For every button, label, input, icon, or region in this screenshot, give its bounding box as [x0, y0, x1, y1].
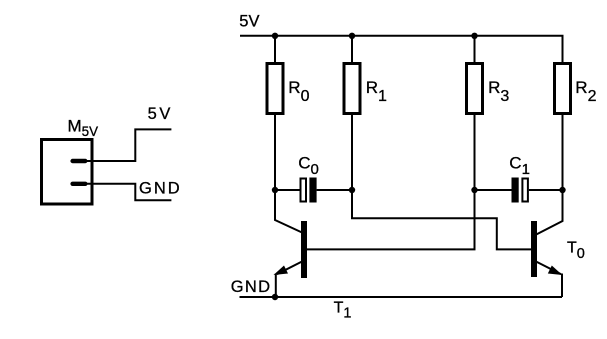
wire node C to C1	[475, 189, 513, 191]
resistor R1	[344, 64, 360, 114]
wire pin 2 to GND terminal	[80, 184, 171, 201]
T0 emitter arrow	[548, 266, 563, 276]
svg-text:5V: 5V	[239, 13, 259, 31]
svg-text:GND: GND	[139, 180, 182, 198]
pin 1 (5V) of connector M1	[73, 159, 86, 163]
svg-text:R0: R0	[288, 78, 309, 105]
T0 emitter	[536, 262, 561, 275]
transistor T1 base bar	[301, 221, 307, 278]
wire R0 to node A	[274, 115, 276, 190]
wire C1 to node D	[529, 189, 563, 191]
T1 emitter arrow	[274, 266, 289, 276]
junction rail/R1	[349, 33, 355, 39]
T1 emitter	[277, 262, 302, 275]
wire node B to T0 base	[352, 190, 531, 249]
svg-text:GND: GND	[231, 278, 272, 296]
svg-text:5V: 5V	[148, 105, 173, 123]
wire T1 base to node C	[307, 190, 475, 249]
wire R3 to node C	[474, 115, 476, 190]
wire rail to R0	[274, 36, 276, 63]
capacitor C1 negative plate	[522, 179, 528, 202]
capacitor C0 negative plate	[301, 179, 307, 202]
junction GND rail / T1 emitter	[272, 294, 278, 300]
svg-text:T0: T0	[567, 239, 585, 262]
svg-text:T1: T1	[334, 300, 352, 322]
svg-text:R3: R3	[488, 78, 509, 105]
svg-text:M5V: M5V	[68, 117, 99, 139]
connector M1 body	[42, 140, 93, 205]
wire T1 emitter to GND rail	[275, 274, 277, 298]
wire T0 emitter to GND rail	[561, 274, 563, 298]
capacitor C1 positive plate	[512, 178, 519, 203]
svg-text:R2: R2	[575, 78, 596, 105]
wire node A to T1 collector	[275, 190, 302, 233]
transistor T0 base bar	[531, 221, 537, 277]
junction node A (R0/C0/T1 collector)	[272, 187, 278, 193]
resistor R0	[267, 64, 283, 114]
capacitor C0 positive plate	[309, 178, 316, 203]
junction node D (C1/R2/T0 collector)	[559, 187, 565, 193]
junction rail/R0	[272, 33, 278, 39]
wire R2 to node D	[562, 115, 564, 190]
junction node B (C0/R1/T0 base wire)	[349, 187, 355, 193]
wire C0 to node B	[317, 189, 352, 191]
wire GND rail	[240, 296, 563, 298]
svg-text:C0: C0	[298, 153, 319, 178]
wire node A to C0	[275, 189, 301, 191]
wire 5V rail	[240, 36, 563, 63]
pin 2 (GND) of connector M1	[73, 182, 86, 186]
wire pin 1 to 5V terminal	[80, 129, 171, 161]
wire node D to T0 collector	[536, 190, 563, 235]
svg-text:R1: R1	[366, 78, 387, 105]
wire R1 to node B	[351, 115, 353, 190]
resistor R3	[467, 64, 483, 114]
svg-text:C1: C1	[509, 153, 530, 178]
junction rail/R3	[471, 33, 477, 39]
wire rail to R1	[351, 36, 353, 63]
resistor R2	[555, 64, 571, 114]
wire rail to R3	[474, 36, 476, 63]
junction node C (R3/C1/T1 base wire)	[471, 187, 477, 193]
